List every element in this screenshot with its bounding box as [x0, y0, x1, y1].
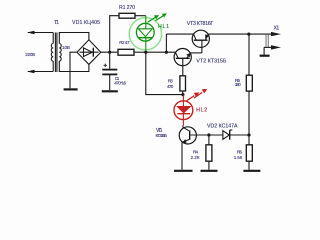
svg-text:HL2: HL2: [196, 108, 207, 114]
svg-text:470: 470: [167, 84, 174, 89]
svg-text:220В: 220В: [25, 52, 35, 57]
svg-text:R6: R6: [237, 149, 242, 154]
svg-text:10В: 10В: [62, 45, 70, 50]
svg-text:1.5К: 1.5К: [234, 155, 243, 160]
svg-text:180: 180: [235, 82, 241, 87]
svg-text:КТ315Б: КТ315Б: [156, 133, 168, 138]
svg-text:VD2 КС147А: VD2 КС147А: [207, 123, 238, 129]
svg-text:2.2К: 2.2К: [191, 155, 200, 160]
svg-text:R4: R4: [193, 149, 198, 154]
svg-text:470*16: 470*16: [114, 80, 126, 85]
svg-text:R2 47: R2 47: [119, 40, 130, 45]
svg-text:R3: R3: [168, 79, 173, 84]
svg-text:T1: T1: [54, 20, 59, 26]
svg-text:X1: X1: [274, 26, 280, 32]
svg-text:VD1 КЦ405: VD1 КЦ405: [72, 20, 100, 26]
svg-text:VT2 КТ315Б: VT2 КТ315Б: [196, 58, 227, 64]
svg-text:VT3 КТ816Г: VT3 КТ816Г: [187, 21, 214, 27]
svg-text:R1 270: R1 270: [119, 5, 135, 11]
svg-text:HL1: HL1: [158, 24, 169, 30]
